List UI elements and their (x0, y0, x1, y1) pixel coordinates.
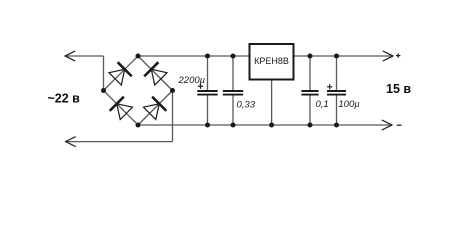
svg-text:КРЕН8В: КРЕН8В (254, 56, 289, 66)
svg-text:~22 в: ~22 в (48, 91, 81, 105)
svg-text:100µ: 100µ (338, 99, 360, 110)
svg-text:15 в: 15 в (386, 82, 411, 96)
svg-text:0,1: 0,1 (316, 99, 329, 110)
svg-text:0,33: 0,33 (237, 100, 256, 111)
svg-text:2200µ: 2200µ (178, 75, 206, 86)
